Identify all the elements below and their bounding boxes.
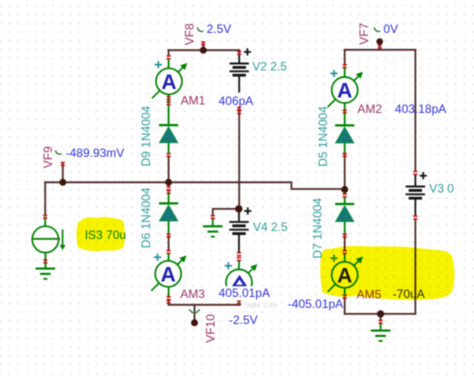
svg-text:AM3: AM3 — [180, 287, 205, 301]
svg-text:A: A — [161, 71, 176, 94]
svg-text:-489.93mV: -489.93mV — [66, 146, 125, 160]
svg-text:V4 2.5: V4 2.5 — [253, 220, 288, 234]
svg-text:AM4 -2.5V: AM4 -2.5V — [247, 303, 278, 310]
svg-text:-405.01pA: -405.01pA — [288, 297, 343, 311]
svg-text:D5 1N4004: D5 1N4004 — [316, 106, 330, 167]
svg-text:VF8: VF8 — [183, 23, 197, 45]
svg-text:403.18pA: 403.18pA — [395, 102, 446, 116]
svg-text:-2.5V: -2.5V — [229, 313, 258, 327]
svg-text:A: A — [161, 263, 176, 286]
svg-text:A: A — [337, 80, 352, 103]
svg-text:VF7: VF7 — [357, 22, 371, 44]
svg-text:V3 0: V3 0 — [429, 182, 454, 196]
svg-text:D7 1N4004: D7 1N4004 — [311, 198, 325, 259]
svg-text:VF10: VF10 — [203, 314, 217, 343]
svg-text:2.5V: 2.5V — [207, 22, 232, 36]
svg-text:V2 2.5: V2 2.5 — [252, 60, 287, 74]
svg-text:0V: 0V — [383, 22, 398, 36]
svg-text:405.01pA: 405.01pA — [219, 286, 270, 300]
svg-text:VF9: VF9 — [41, 146, 55, 168]
svg-text:406pA: 406pA — [219, 94, 254, 108]
svg-text:AM1: AM1 — [181, 94, 206, 108]
svg-text:AM2: AM2 — [357, 102, 382, 116]
svg-text:D9 1N4004: D9 1N4004 — [139, 105, 153, 166]
svg-text:D6 1N4004: D6 1N4004 — [139, 187, 153, 248]
